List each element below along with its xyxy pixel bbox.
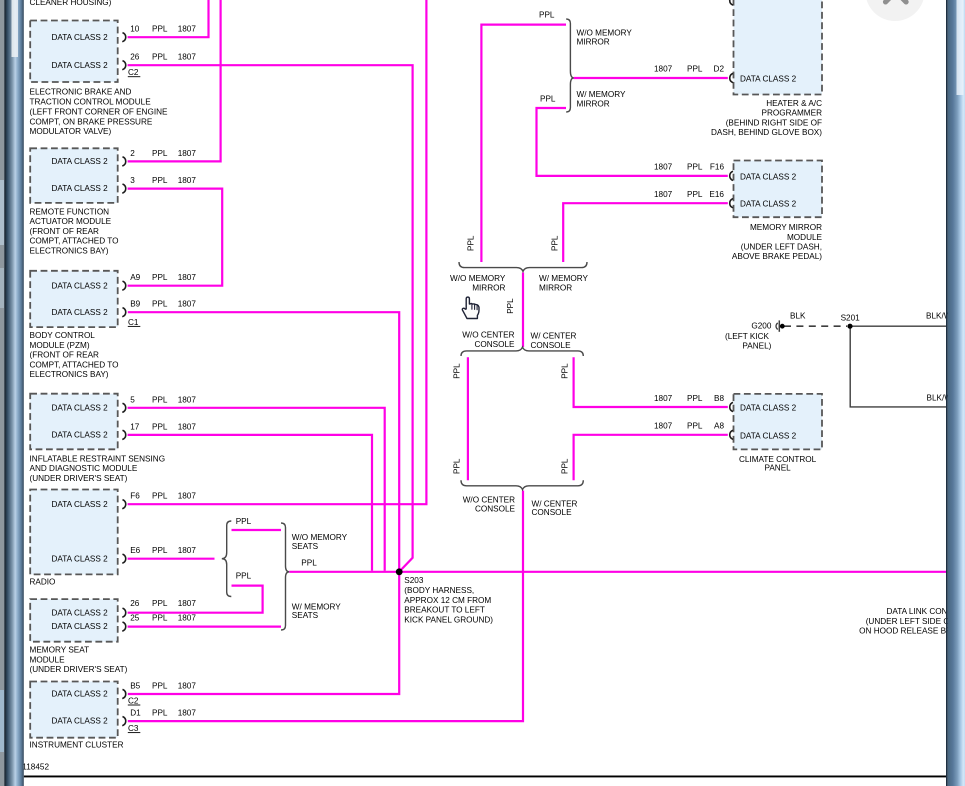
svg-text:PPL: PPL — [152, 300, 168, 309]
svg-text:MEMORY MIRROR: MEMORY MIRROR — [750, 223, 822, 232]
svg-text:PANEL: PANEL — [764, 463, 791, 472]
svg-text:S203: S203 — [404, 576, 424, 585]
svg-text:1807: 1807 — [178, 492, 197, 501]
svg-text:W/O MEMORY: W/O MEMORY — [292, 533, 348, 542]
svg-text:PPL: PPL — [551, 235, 560, 251]
svg-text:1807: 1807 — [178, 273, 197, 282]
svg-text:ELECTRONICS BAY): ELECTRONICS BAY) — [30, 247, 109, 256]
svg-text:ABOVE BRAKE PEDAL): ABOVE BRAKE PEDAL) — [732, 252, 822, 261]
svg-text:PPL: PPL — [152, 53, 168, 62]
svg-text:PPL: PPL — [467, 235, 476, 251]
svg-text:BLK: BLK — [790, 312, 806, 321]
svg-text:INSTRUMENT CLUSTER: INSTRUMENT CLUSTER — [30, 740, 124, 749]
svg-text:1807: 1807 — [178, 395, 197, 404]
svg-text:APPROX 12 CM FROM: APPROX 12 CM FROM — [404, 596, 491, 605]
svg-text:2: 2 — [130, 149, 135, 158]
svg-text:PPL: PPL — [152, 546, 168, 555]
svg-text:PPL: PPL — [506, 298, 515, 314]
svg-text:ELECTRONICS BAY): ELECTRONICS BAY) — [30, 370, 109, 379]
svg-text:C1: C1 — [128, 318, 139, 327]
svg-text:PPL: PPL — [152, 492, 168, 501]
svg-text:PPL: PPL — [687, 422, 703, 431]
svg-text:KICK PANEL GROUND): KICK PANEL GROUND) — [404, 615, 493, 624]
svg-text:C2: C2 — [128, 68, 139, 77]
svg-text:(BEHIND RIGHT SIDE OF: (BEHIND RIGHT SIDE OF — [726, 118, 822, 127]
svg-text:1807: 1807 — [178, 149, 197, 158]
svg-text:DATA CLASS 2: DATA CLASS 2 — [740, 172, 797, 181]
svg-text:PPL: PPL — [453, 458, 462, 474]
svg-text:PPL: PPL — [539, 11, 555, 20]
svg-text:MIRROR: MIRROR — [472, 284, 505, 293]
svg-text:F16: F16 — [710, 163, 725, 172]
svg-text:1807: 1807 — [654, 422, 673, 431]
svg-text:REMOTE FUNCTION: REMOTE FUNCTION — [30, 207, 110, 216]
svg-text:W/O MEMORY: W/O MEMORY — [577, 29, 633, 38]
svg-text:W/O CENTER: W/O CENTER — [462, 330, 514, 339]
svg-text:PPL: PPL — [152, 176, 168, 185]
svg-text:HEATER & A/C: HEATER & A/C — [766, 99, 822, 108]
svg-text:CONSOLE: CONSOLE — [475, 505, 516, 514]
svg-text:DATA CLASS 2: DATA CLASS 2 — [52, 500, 109, 509]
svg-text:DATA CLASS 2: DATA CLASS 2 — [740, 404, 797, 413]
svg-text:(LEFT KICK: (LEFT KICK — [725, 332, 770, 341]
svg-text:W/ MEMORY: W/ MEMORY — [539, 274, 589, 283]
svg-text:G200: G200 — [751, 322, 771, 331]
svg-text:1807: 1807 — [178, 25, 197, 34]
svg-text:DATA CLASS 2: DATA CLASS 2 — [52, 33, 109, 42]
svg-text:DATA CLASS 2: DATA CLASS 2 — [52, 608, 109, 617]
svg-text:E16: E16 — [709, 190, 724, 199]
svg-text:DASH, BEHIND GLOVE BOX): DASH, BEHIND GLOVE BOX) — [711, 128, 822, 137]
svg-text:S201: S201 — [841, 314, 861, 323]
svg-text:COMPT, ON BRAKE PRESSURE: COMPT, ON BRAKE PRESSURE — [30, 117, 153, 126]
svg-text:1807: 1807 — [178, 682, 197, 691]
svg-text:PPL: PPL — [152, 25, 168, 34]
svg-text:PPL: PPL — [687, 163, 703, 172]
svg-text:1807: 1807 — [654, 163, 673, 172]
svg-text:PPL: PPL — [687, 65, 703, 74]
svg-text:DATA CLASS 2: DATA CLASS 2 — [52, 281, 109, 290]
svg-text:PPL: PPL — [453, 363, 462, 379]
svg-text:PANEL): PANEL) — [742, 341, 771, 350]
svg-text:(LEFT FRONT CORNER OF ENGINE: (LEFT FRONT CORNER OF ENGINE — [30, 107, 169, 116]
svg-text:DATA CLASS 2: DATA CLASS 2 — [52, 184, 109, 193]
svg-text:INFLATABLE RESTRAINT SENSING: INFLATABLE RESTRAINT SENSING — [30, 454, 166, 463]
svg-text:DATA CLASS 2: DATA CLASS 2 — [52, 622, 109, 631]
svg-text:1807: 1807 — [654, 394, 673, 403]
svg-text:W/O MEMORY: W/O MEMORY — [450, 274, 506, 283]
svg-text:COMPT, ATTACHED TO: COMPT, ATTACHED TO — [30, 360, 119, 369]
svg-text:PPL: PPL — [301, 559, 317, 568]
svg-text:PPL: PPL — [152, 395, 168, 404]
svg-text:MODULATOR VALVE): MODULATOR VALVE) — [30, 127, 112, 136]
svg-text:DATA CLASS 2: DATA CLASS 2 — [740, 431, 797, 440]
svg-text:D2: D2 — [714, 65, 725, 74]
svg-text:118452: 118452 — [22, 762, 49, 771]
svg-text:1807: 1807 — [178, 709, 197, 718]
svg-text:MODULE (PZM): MODULE (PZM) — [30, 341, 90, 350]
svg-text:MEMORY SEAT: MEMORY SEAT — [30, 646, 90, 655]
svg-text:1807: 1807 — [654, 65, 673, 74]
svg-text:CONSOLE: CONSOLE — [532, 508, 573, 517]
svg-text:10: 10 — [130, 25, 140, 34]
svg-text:DATA CLASS 2: DATA CLASS 2 — [52, 61, 109, 70]
svg-text:W/O CENTER: W/O CENTER — [463, 496, 515, 505]
svg-text:DATA CLASS 2: DATA CLASS 2 — [52, 690, 109, 699]
svg-text:PPL: PPL — [152, 709, 168, 718]
svg-text:B9: B9 — [130, 300, 140, 309]
svg-text:(BODY HARNESS,: (BODY HARNESS, — [404, 586, 474, 595]
svg-text:C3: C3 — [128, 724, 139, 733]
svg-text:DATA CLASS 2: DATA CLASS 2 — [52, 308, 109, 317]
svg-text:PROGRAMMER: PROGRAMMER — [762, 109, 823, 118]
svg-text:PPL: PPL — [152, 422, 168, 431]
svg-text:DATA CLASS 2: DATA CLASS 2 — [52, 554, 109, 563]
svg-text:B5: B5 — [130, 682, 140, 691]
svg-text:E6: E6 — [130, 546, 140, 555]
svg-text:DATA CLASS 2: DATA CLASS 2 — [52, 717, 109, 726]
svg-text:PPL: PPL — [152, 149, 168, 158]
svg-text:PPL: PPL — [540, 95, 556, 104]
svg-text:C2: C2 — [128, 697, 139, 706]
svg-text:DATA CLASS 2: DATA CLASS 2 — [52, 157, 109, 166]
svg-text:W/ MEMORY: W/ MEMORY — [292, 602, 342, 611]
svg-text:A8: A8 — [714, 422, 724, 431]
svg-text:PPL: PPL — [152, 273, 168, 282]
svg-text:F6: F6 — [130, 492, 140, 501]
svg-text:1807: 1807 — [178, 53, 197, 62]
svg-text:17: 17 — [130, 422, 140, 431]
svg-text:(UNDER LEFT DASH,: (UNDER LEFT DASH, — [741, 243, 822, 252]
svg-text:PPL: PPL — [687, 190, 703, 199]
svg-text:DATA CLASS 2: DATA CLASS 2 — [740, 75, 797, 84]
svg-text:PPL: PPL — [687, 394, 703, 403]
svg-text:1807: 1807 — [178, 176, 197, 185]
svg-text:TRACTION CONTROL MODULE: TRACTION CONTROL MODULE — [30, 98, 152, 107]
svg-text:MIRROR: MIRROR — [539, 284, 572, 293]
svg-text:ELECTRONIC BRAKE AND: ELECTRONIC BRAKE AND — [30, 88, 132, 97]
svg-text:DATA CLASS 2: DATA CLASS 2 — [740, 200, 797, 209]
svg-text:1807: 1807 — [654, 190, 673, 199]
svg-text:26: 26 — [130, 599, 140, 608]
svg-text:5: 5 — [130, 395, 135, 404]
svg-text:1807: 1807 — [178, 599, 197, 608]
svg-text:SEATS: SEATS — [292, 611, 319, 620]
svg-text:26: 26 — [130, 53, 140, 62]
svg-text:ACTUATOR MODULE: ACTUATOR MODULE — [30, 217, 112, 226]
svg-text:DATA CLASS 2: DATA CLASS 2 — [52, 403, 109, 412]
svg-text:PPL: PPL — [561, 458, 570, 474]
svg-text:(FRONT OF REAR: (FRONT OF REAR — [30, 227, 100, 236]
svg-text:BODY CONTROL: BODY CONTROL — [30, 331, 96, 340]
svg-text:MIRROR: MIRROR — [577, 99, 610, 108]
svg-text:BREAKOUT TO LEFT: BREAKOUT TO LEFT — [404, 606, 485, 615]
svg-text:PPL: PPL — [236, 572, 252, 581]
svg-text:1807: 1807 — [178, 300, 197, 309]
svg-text:25: 25 — [130, 614, 140, 623]
svg-text:MIRROR: MIRROR — [577, 37, 610, 46]
svg-text:AND DIAGNOSTIC MODULE: AND DIAGNOSTIC MODULE — [30, 464, 138, 473]
svg-text:PPL: PPL — [236, 517, 252, 526]
svg-text:PPL: PPL — [152, 682, 168, 691]
svg-text:(UNDER DRIVER'S SEAT): (UNDER DRIVER'S SEAT) — [30, 474, 128, 483]
svg-text:1807: 1807 — [178, 614, 197, 623]
svg-text:1807: 1807 — [178, 422, 197, 431]
svg-text:MODULE: MODULE — [787, 233, 823, 242]
svg-text:(UNDER DRIVER'S SEAT): (UNDER DRIVER'S SEAT) — [30, 665, 128, 674]
svg-text:W/ CENTER: W/ CENTER — [531, 332, 577, 341]
svg-text:CONSOLE: CONSOLE — [474, 340, 515, 349]
svg-text:B8: B8 — [714, 394, 724, 403]
svg-text:D1: D1 — [130, 709, 141, 718]
svg-text:CONSOLE: CONSOLE — [531, 341, 572, 350]
svg-text:DATA CLASS 2: DATA CLASS 2 — [52, 431, 109, 440]
svg-text:COMPT, ATTACHED TO: COMPT, ATTACHED TO — [30, 237, 119, 246]
svg-text:W/ MEMORY: W/ MEMORY — [577, 90, 627, 99]
svg-text:PPL: PPL — [152, 614, 168, 623]
svg-text:SEATS: SEATS — [292, 542, 319, 551]
svg-text:PPL: PPL — [152, 599, 168, 608]
svg-text:CLEANER HOUSING): CLEANER HOUSING) — [30, 0, 112, 7]
svg-text:PPL: PPL — [561, 363, 570, 379]
svg-text:3: 3 — [130, 176, 135, 185]
svg-text:(FRONT OF REAR: (FRONT OF REAR — [30, 351, 100, 360]
svg-text:A9: A9 — [130, 273, 140, 282]
svg-text:1807: 1807 — [178, 546, 197, 555]
svg-text:MODULE: MODULE — [30, 655, 66, 664]
svg-text:RADIO: RADIO — [30, 578, 56, 587]
